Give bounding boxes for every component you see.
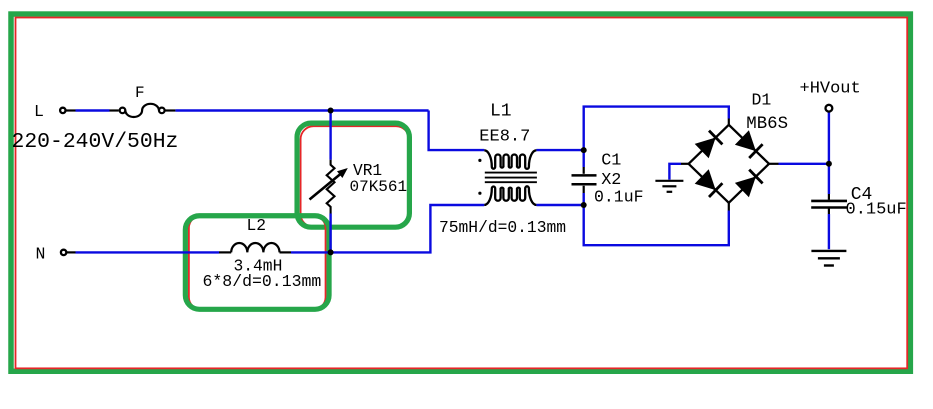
svg-text:L2: L2 [247, 216, 267, 235]
wire L2-to-corner [291, 205, 484, 252]
svg-text:0.15uF: 0.15uF [846, 201, 907, 220]
wire VR1 bottom lead [329, 214, 331, 253]
bridge rectifier D1 diamond [689, 125, 769, 203]
wire L line blue segments [76, 107, 829, 253]
junction node HVout [826, 161, 832, 167]
wire fuse-to-junction-A [175, 109, 428, 111]
wire C4 to ground [828, 214, 830, 249]
fuse F [120, 104, 165, 117]
svg-text:N: N [36, 245, 46, 264]
bridge left stub [681, 163, 689, 165]
wire corner down to L1 top [429, 111, 485, 151]
terminal +HVout circle [826, 105, 833, 112]
svg-text:0.1uF: 0.1uF [594, 188, 644, 207]
highlight box L2 (green with red inner) [185, 216, 329, 310]
inductor L2 coil [219, 243, 291, 252]
transformer L1 top winding [484, 150, 536, 169]
svg-text:+HVout: +HVout [800, 80, 861, 99]
fuse right stub [166, 109, 176, 111]
highlight box VR1 (green with red inner) [297, 123, 409, 227]
wire N-to-L2 [76, 251, 220, 253]
wire C1 column upper [584, 107, 729, 167]
junction node on N line [328, 249, 334, 255]
wire C1 column lower [584, 193, 729, 245]
svg-text:6*8/d=0.13mm: 6*8/d=0.13mm [203, 272, 322, 291]
svg-text:L1: L1 [490, 101, 512, 121]
wire bridge right to HVout node [779, 163, 829, 165]
terminal L stub [66, 109, 76, 111]
wire L1 bottom right to C1 bottom junction [536, 204, 583, 206]
svg-text:220-240V/50Hz: 220-240V/50Hz [12, 130, 179, 154]
black stubs and components [66, 111, 779, 253]
svg-text:EE8.7: EE8.7 [479, 127, 530, 146]
wire VR1 top lead [329, 111, 331, 160]
diode D1c left-bottom [695, 169, 723, 197]
junction node A on L line [328, 108, 334, 114]
varistor VR1 zigzag [327, 160, 335, 214]
transformer L1 bottom winding [484, 186, 536, 205]
fuse left stub [110, 109, 119, 111]
wire L1 top right to C1 top junction [536, 149, 583, 151]
wire bridge left to ground [669, 164, 681, 180]
svg-text:F: F [135, 84, 145, 102]
capacitor C1 [572, 167, 597, 193]
varistor VR1 arrow [310, 173, 342, 199]
svg-text:L: L [34, 102, 44, 121]
svg-text:D1: D1 [752, 91, 772, 110]
svg-text:75mH/d=0.13mm: 75mH/d=0.13mm [439, 218, 566, 237]
junction node C1 top [581, 147, 587, 153]
diode D1b top-right [735, 130, 763, 158]
transformer L1 core [485, 173, 537, 183]
bridge right stub [769, 163, 779, 165]
diode D1d bottom-right [735, 170, 763, 198]
svg-text:07K561: 07K561 [350, 178, 408, 196]
bridge top stub [728, 119, 730, 125]
terminal L circle [60, 108, 65, 113]
wire HVout terminal down to node and C4 [828, 113, 830, 195]
diode D1a left-top [695, 131, 723, 159]
bridge bottom stub [728, 203, 730, 211]
terminal N circle [61, 250, 66, 255]
phase dot top [478, 159, 481, 162]
capacitor C4 [811, 194, 847, 214]
ground at bridge minus [655, 181, 683, 192]
svg-text:MB6S: MB6S [746, 115, 788, 134]
svg-text:C1: C1 [601, 152, 621, 171]
terminal N stub [66, 251, 75, 253]
wire L-to-fuse [76, 109, 110, 111]
phase dot bottom [478, 192, 481, 195]
junction node C1 bottom [581, 202, 587, 208]
ground at C4 [811, 251, 846, 266]
